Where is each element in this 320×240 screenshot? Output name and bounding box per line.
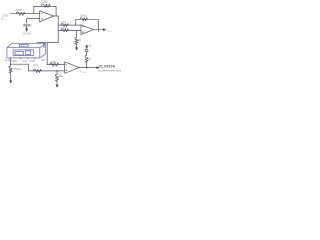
svg-text:out: out: [83, 71, 86, 74]
svg-text:GND: GND: [12, 60, 18, 63]
svg-text:Vout: Vout: [23, 60, 28, 63]
svg-text:10kΩ: 10kΩ: [15, 8, 21, 12]
svg-text:TLV9304: TLV9304: [99, 64, 115, 68]
svg-text:1kΩ: 1kΩ: [33, 63, 38, 67]
svg-text:+5V: +5V: [41, 59, 46, 62]
svg-text:10k: 10k: [59, 75, 64, 78]
svg-text:100kΩ: 100kΩ: [80, 15, 87, 18]
svg-text:R4: R4: [78, 39, 82, 42]
svg-text:10kΩ: 10kΩ: [51, 60, 57, 64]
svg-text:+5: +5: [88, 45, 91, 48]
svg-text:10kΩ: 10kΩ: [61, 28, 67, 30]
svg-text:1A 3nF: 1A 3nF: [22, 32, 31, 36]
svg-text:Accelerometer amp: Accelerometer amp: [98, 69, 121, 73]
svg-text:C: C: [30, 23, 32, 27]
svg-text:+2.5V: +2.5V: [4, 58, 11, 62]
svg-text:in: in: [4, 19, 6, 21]
svg-text:470kΩ: 470kΩ: [13, 67, 21, 71]
svg-text:GND: GND: [30, 60, 36, 63]
svg-text:2.5V: 2.5V: [2, 13, 9, 17]
svg-text:10kΩ: 10kΩ: [61, 22, 67, 24]
svg-text:R: R: [89, 58, 91, 61]
svg-text:o1: o1: [109, 31, 111, 33]
svg-text:100kΩ: 100kΩ: [41, 1, 48, 4]
